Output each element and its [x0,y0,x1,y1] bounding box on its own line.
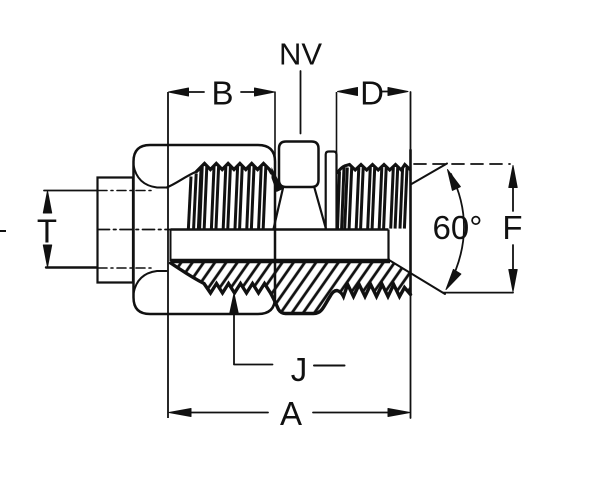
svg-text:J: J [291,351,308,388]
svg-text:T: T [37,213,57,250]
svg-text:F: F [502,209,522,246]
svg-text:B: B [211,75,233,112]
svg-text:A: A [280,395,302,432]
svg-text:D: D [360,75,384,112]
svg-text:NV: NV [279,37,322,72]
svg-text:60°: 60° [433,209,483,246]
